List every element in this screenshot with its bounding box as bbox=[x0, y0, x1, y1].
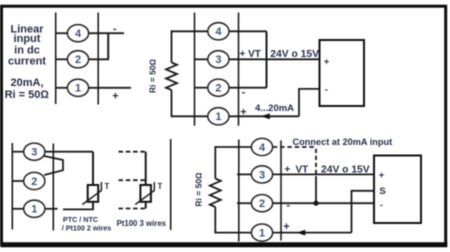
wire stub terminal 1 left bbox=[56, 87, 68, 89]
svg-text:2: 2 bbox=[75, 54, 81, 66]
svg-text:4: 4 bbox=[215, 26, 222, 38]
svg-text:24V o 15V: 24V o 15V bbox=[270, 49, 319, 60]
svg-text:+: + bbox=[285, 165, 291, 176]
svg-text:+: + bbox=[379, 170, 385, 181]
wire 3-wire sensor top lead bbox=[145, 152, 147, 185]
svg-text:+: + bbox=[324, 57, 330, 68]
wire stub terminal 2 left (bottom-left) bbox=[12, 180, 24, 182]
RTD sensor body (2 wires) bbox=[88, 185, 99, 202]
wire terminal 1 right (top-middle) bbox=[229, 115, 299, 117]
left column description text bbox=[5, 24, 50, 102]
svg-text:current: current bbox=[8, 55, 46, 67]
terminal 4 bbox=[67, 25, 88, 42]
svg-text:-: - bbox=[325, 85, 328, 96]
svg-text:1: 1 bbox=[259, 228, 265, 240]
connect wire vertical solid part bbox=[315, 176, 317, 203]
wire terminal 2 to transmitter minus bbox=[273, 202, 375, 204]
svg-text:-: - bbox=[113, 23, 117, 35]
resistor Ri (top block) bbox=[166, 63, 177, 91]
wire sensor bottom to terminal 1 bbox=[63, 208, 94, 210]
terminal 4 bbox=[251, 138, 272, 155]
svg-text:Connect at 20mA input: Connect at 20mA input bbox=[293, 137, 393, 147]
svg-text:VT: VT bbox=[296, 165, 309, 176]
terminal 2 bbox=[251, 195, 272, 212]
dashed connect wire from terminal 4 bbox=[273, 146, 316, 148]
terminal 1 bbox=[67, 79, 88, 96]
svg-text:3: 3 bbox=[259, 169, 265, 181]
svg-text:24V o 15V: 24V o 15V bbox=[321, 165, 370, 176]
svg-text:Ri = 50Ω: Ri = 50Ω bbox=[194, 172, 204, 207]
dashed wire terminal 1 to 3-wire sensor bbox=[119, 208, 146, 210]
wire 3-wire sensor bottom stub bbox=[145, 202, 147, 209]
wire stub terminal 1 right (bottom-left) bbox=[45, 208, 58, 210]
terminal strip right rail (top-left block) bbox=[97, 13, 99, 105]
terminal strip right rail (bottom-right block) bbox=[280, 141, 282, 241]
svg-text:2: 2 bbox=[215, 83, 221, 95]
wire stub terminal 2 left bbox=[56, 58, 68, 60]
terminal 2 bbox=[208, 79, 229, 96]
terminal strip left rail (bottom-left block) bbox=[11, 143, 13, 230]
wire resistor top to terminal 4 (bottom) bbox=[214, 146, 252, 148]
wire stub terminal 1 left (bottom-left) bbox=[12, 208, 24, 210]
svg-text:3: 3 bbox=[215, 54, 221, 66]
RTD sensor body (3 wires) bbox=[140, 185, 151, 202]
wire stub terminal 3 left (bottom-left) bbox=[12, 151, 24, 153]
wire sensor bottom stub bbox=[92, 202, 94, 210]
svg-text:+: + bbox=[112, 91, 118, 103]
svg-text:4...20mA: 4...20mA bbox=[255, 103, 294, 114]
wire terminal 1 right (bottom-right) bbox=[273, 232, 352, 234]
terminal 1 bbox=[24, 200, 45, 217]
svg-text:+: + bbox=[240, 107, 246, 119]
svg-text:/ Pt100 2 wires: / Pt100 2 wires bbox=[62, 223, 112, 232]
svg-text:2: 2 bbox=[31, 176, 37, 188]
svg-text:+ VT: + VT bbox=[240, 49, 261, 60]
transmitter box U2 bbox=[374, 156, 421, 224]
wire stub terminal 2 left (top-middle) bbox=[195, 87, 209, 89]
svg-text:+: + bbox=[283, 221, 289, 233]
terminal 1 bbox=[208, 108, 229, 125]
terminal 2 bbox=[24, 172, 45, 189]
terminal 3 bbox=[208, 51, 229, 68]
terminal strip left rail (bottom-right block) bbox=[238, 140, 240, 242]
svg-text:input: input bbox=[14, 33, 41, 45]
terminal 3 bbox=[24, 143, 45, 160]
terminal strip left rail (top-middle block) bbox=[194, 13, 196, 126]
wire stub terminal 2 left (bottom-right) bbox=[237, 202, 252, 204]
svg-text:1: 1 bbox=[75, 83, 81, 95]
RTD diagonal mark (3 wires) bbox=[135, 182, 154, 205]
terminal 1 bbox=[251, 224, 272, 241]
RTD diagonal mark bbox=[82, 182, 101, 205]
svg-text:-: - bbox=[286, 200, 290, 212]
svg-text:Ri = 50Ω: Ri = 50Ω bbox=[5, 89, 50, 101]
svg-text:T: T bbox=[157, 182, 162, 191]
wire terminal 3 to transmitter plus bbox=[229, 58, 320, 60]
wire terminal 1 right bbox=[88, 87, 131, 89]
wire terminal 4 right bbox=[88, 32, 124, 34]
dashed wire terminal 2 to 3-wire sensor bbox=[119, 179, 146, 181]
svg-text:1: 1 bbox=[215, 111, 221, 123]
wire transmitter minus riser bbox=[299, 89, 320, 116]
svg-text:-: - bbox=[380, 200, 383, 211]
svg-text:-: - bbox=[242, 87, 246, 99]
svg-text:Pt100 3 wires: Pt100 3 wires bbox=[117, 219, 167, 228]
wire terminal 3 to transmitter plus (bottom) bbox=[273, 173, 375, 175]
wire terminal 2 right bbox=[88, 58, 109, 60]
wire stub terminal 4 left bbox=[56, 32, 68, 34]
terminal strip right rail (bottom-left block) bbox=[52, 144, 54, 231]
svg-text:20mA,: 20mA, bbox=[10, 77, 43, 89]
jumper wire 4-2 bbox=[107, 33, 109, 59]
wire resistor bottom to terminal 1 bbox=[171, 115, 208, 117]
svg-text:4: 4 bbox=[259, 142, 266, 154]
svg-text:1: 1 bbox=[31, 204, 37, 216]
wire stub terminal 3 left (bottom-right) bbox=[237, 173, 252, 175]
wire terminal 3 to sensor bbox=[45, 151, 94, 153]
wire stub terminal 3 left (top-middle) bbox=[195, 58, 209, 60]
terminal strip left rail (top-left block) bbox=[55, 13, 57, 105]
terminal 3 bbox=[251, 166, 272, 183]
wire transmitter S riser bbox=[352, 191, 375, 233]
wire terminal 4 right (top-middle) bbox=[229, 30, 267, 32]
dashed wire terminal 3 to 3-wire sensor bbox=[119, 151, 146, 153]
jumper hook 3-2 bbox=[44, 156, 63, 175]
transmitter box U1 bbox=[320, 40, 365, 106]
svg-text:2: 2 bbox=[259, 198, 265, 210]
wire resistor top to terminal 4 bbox=[171, 30, 208, 32]
svg-text:4: 4 bbox=[75, 28, 82, 40]
svg-text:S: S bbox=[379, 186, 385, 197]
wire sensor down lead bbox=[92, 152, 94, 185]
arrowhead on signal wire bbox=[297, 230, 306, 236]
dashed connect wire vertical bbox=[315, 149, 317, 176]
resistor Ri (bottom block) bbox=[210, 179, 221, 208]
svg-text:Ri = 50Ω: Ri = 50Ω bbox=[148, 58, 158, 93]
wire terminal 2 right (top-middle) bbox=[229, 87, 267, 89]
terminal strip right rail (top-middle block) bbox=[238, 13, 240, 126]
junction dot bbox=[313, 201, 318, 206]
svg-text:T: T bbox=[104, 182, 109, 191]
terminal 2 bbox=[67, 51, 88, 68]
wire resistor bottom to terminal 1 (bottom) bbox=[214, 232, 252, 234]
terminal 4 bbox=[208, 23, 229, 40]
arrowhead on 4-20mA wire bbox=[261, 113, 270, 119]
svg-text:3: 3 bbox=[31, 147, 37, 159]
section divider line bbox=[170, 139, 172, 230]
jumper wire 4-2 (top-middle) bbox=[266, 31, 268, 87]
